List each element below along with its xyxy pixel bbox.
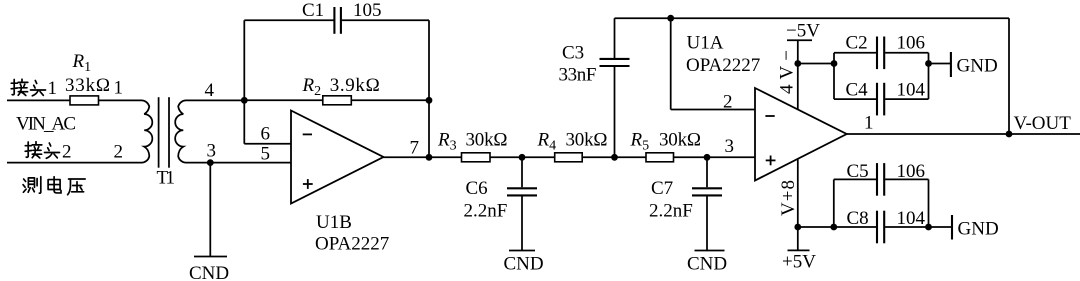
svg-text:3: 3 [725,136,735,157]
svg-text:30kΩ: 30kΩ [466,130,508,151]
junction: R2/C1 right rail [426,97,433,104]
wire: C2/C4 right rail [928,53,930,99]
wire: pin 6 horizontal into U1B - input [244,143,291,145]
wire: U1A output (pin 1) to V-OUT [847,133,1080,135]
wire: C5 row left [834,178,876,180]
svg-text:C1: C1 [302,0,324,21]
svg-text:OPA2227: OPA2227 [315,234,389,255]
svg-text:C5: C5 [847,161,869,182]
svg-text:6: 6 [261,124,271,145]
resistor R1 [70,96,99,105]
capacitor C8 [876,211,878,244]
wire: C3 up to feedback rail [614,18,616,58]
wire: R1 to transformer primary top [99,99,141,101]
junction: right rail bottom tap [925,224,932,231]
wire: R4 to R5 [582,156,646,158]
junction: pin2 tap on rail [667,15,674,22]
op-amp U1A [755,88,847,181]
svg-text:+5V: +5V [782,252,816,273]
svg-text:−5V: −5V [786,21,820,42]
label: 接头2 (connector 2) [25,142,59,159]
wire: input line B (bottom, to transformer primary bottom) [7,162,140,164]
wire: down to C6 [521,157,523,187]
wire: right feedback vertical (C1/R2 rail down to output node) [428,20,430,157]
wire: input line A (top, to R1) [7,99,70,101]
junction: T1 pin3 / ground tap [207,159,214,166]
svg-text:4V−: 4V− [777,50,798,94]
svg-text:C4: C4 [846,80,869,101]
svg-text:33nF: 33nF [559,65,597,86]
svg-text:106: 106 [897,33,926,54]
wire: down to ground CND [209,163,211,257]
wire: U1A feedback top rail [615,17,1010,19]
svg-text:R4: R4 [537,130,557,154]
svg-text:C6: C6 [466,178,488,199]
wire: to GND (bottom) [929,226,953,228]
resistor R4 [555,153,583,162]
svg-text:CND: CND [189,263,229,281]
ground symbol (T1) [194,256,227,258]
wire: C5 row right [885,178,928,180]
U1B minus marker [303,133,312,135]
transformer T1 primary winding [140,100,152,162]
wire: +5V to U1A V+ pin (8) [797,159,799,250]
power -5V bar [787,39,812,41]
svg-text:CND: CND [687,254,727,275]
op-amp U1B [291,111,384,204]
wire: C6 to ground [521,196,523,250]
junction: output / feedback node [426,154,433,161]
wire: down to C7 [706,157,708,187]
svg-text:R1: R1 [72,51,92,75]
U1B plus marker [303,183,313,185]
junction: C3 tap [611,154,618,161]
svg-text:105: 105 [353,0,382,21]
capacitor C5 [876,163,878,196]
wire: R5 to U1A + input (pin 3) [674,156,756,158]
junction: right rail tap [925,60,932,67]
wire: C8 row right [885,226,928,228]
wire: U1B output (pin 7) to R3 [384,156,462,158]
label: 测电压 (measured voltage) [23,177,85,195]
svg-text:GND: GND [957,56,998,77]
junction: V-OUT / feedback [1006,131,1013,138]
wire: V-OUT feedback vertical [1008,18,1010,134]
svg-text:GND: GND [958,219,999,240]
wire: C2/C4 left rail [833,53,835,99]
svg-text:C3: C3 [562,43,584,64]
ground symbol (C6) [509,250,535,252]
svg-text:2: 2 [114,142,124,163]
wire: to C5/C8 left rail (C8 row feed) [798,226,834,228]
ground symbol (C7) [695,250,725,252]
svg-text:V+8: V+8 [778,180,799,216]
svg-text:7: 7 [410,138,420,159]
junction: bottom decoupling tap [794,224,801,231]
junction: C6 tap [519,154,526,161]
svg-text:R2: R2 [302,75,322,99]
resistor R2 [323,96,352,105]
svg-text:OPA2227: OPA2227 [686,55,760,76]
ground bar (top GND) [950,52,952,77]
svg-text:33kΩ: 33kΩ [65,75,110,96]
wire: secondary pin 4 to feedback node [188,99,245,101]
wire: C2 row left [834,52,876,54]
wire: C2 row right [885,52,928,54]
power +5V bar [788,249,810,251]
junction: C7 tap [704,154,711,161]
junction: left rail bottom tap [830,224,837,231]
svg-text:106: 106 [897,161,926,182]
svg-text:104: 104 [897,208,926,229]
svg-text:2: 2 [723,92,733,113]
wire: -5V to U1A V- pin (4) [797,40,799,109]
svg-text:R5: R5 [630,130,650,154]
wire: C4 row right [885,98,928,100]
svg-text:CND: CND [504,254,544,275]
junction: feedback node (left) [241,97,248,104]
wire: C4 row left [834,98,876,100]
wire: to C2/C4 left rail [798,63,834,65]
svg-text:3.9kΩ: 3.9kΩ [330,75,380,96]
wire: up to C3 [614,67,616,158]
svg-text:5: 5 [261,144,271,165]
svg-text:C7: C7 [651,178,673,199]
svg-text:2.2nF: 2.2nF [649,201,693,222]
svg-text:1: 1 [864,113,874,134]
capacitor C3 [600,65,630,67]
U1A plus marker [766,159,776,161]
svg-text:C2: C2 [846,33,868,54]
label: 接头1 (connector 1) [11,79,45,96]
svg-text:4: 4 [205,80,215,101]
capacitor C7 [692,187,722,189]
svg-text:30kΩ: 30kΩ [566,130,608,151]
junction: top decoupling tap [794,60,801,67]
wire: down from rail to pin 2 level [670,18,672,109]
svg-text:1: 1 [114,78,124,99]
capacitor C1 [333,7,335,34]
wire: to GND (top) [929,63,951,65]
svg-text:U1A: U1A [687,33,724,54]
capacitor C6 [507,187,537,189]
capacitor C4 [876,83,878,116]
ground bar (bottom GND) [951,215,953,240]
wire: C1 top rail right [341,19,429,21]
wire: C7 to ground [706,196,708,250]
wire: R3 to R4 [490,156,555,158]
resistor R3 [462,153,491,162]
svg-text:30kΩ: 30kΩ [659,130,701,151]
svg-text:T1: T1 [157,168,176,189]
resistor R5 [646,153,674,162]
svg-text:2.2nF: 2.2nF [464,201,508,222]
wire: C5/C8 right rail [928,179,930,227]
svg-text:U1B: U1B [316,212,352,233]
wire: pin 2 into U1A - input [671,109,755,111]
svg-text:V-OUT: V-OUT [1014,113,1072,134]
svg-text:1: 1 [48,78,58,99]
junction: left rail tap [831,60,838,67]
transformer T1 core [158,97,160,168]
capacitor C2 [876,37,878,70]
wire: R2 rail right [351,99,429,101]
svg-text:R3: R3 [437,130,457,154]
wire: C8 row left [834,226,876,228]
wire: feedback node vertical (up to C1 rail, down to pin 6) [243,20,245,143]
transformer T1 secondary winding [175,100,187,162]
wire: secondary pin 3 to op-amp U1B + input [188,162,292,164]
wire: C1 top rail left [244,19,334,21]
svg-text:2: 2 [62,142,72,163]
wire: C5/C8 left rail [833,179,835,227]
svg-text:C8: C8 [847,208,869,229]
wire: R2 rail left [244,99,322,101]
svg-text:VIN_AC: VIN_AC [16,114,76,135]
svg-text:104: 104 [897,80,926,101]
U1A minus marker [765,115,774,117]
svg-text:3: 3 [207,141,217,162]
